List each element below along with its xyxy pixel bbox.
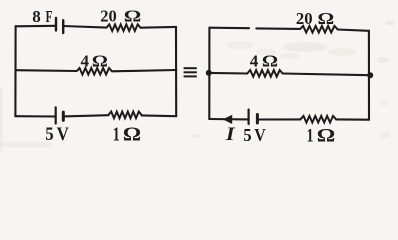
- svg-text:Ω: Ω: [124, 7, 142, 26]
- svg-text:4: 4: [81, 52, 90, 71]
- open gap (capacitor removed), right segment start: [256, 27, 300, 30]
- wire: right circuit top, corner to open gap: [209, 27, 249, 30]
- resistor R5 4ohm (right circuit): [247, 70, 282, 77]
- resistor R1 20ohm (left circuit): [107, 24, 141, 31]
- svg-text:20: 20: [100, 7, 117, 26]
- wire: right circuit middle branch, right segment: [283, 74, 371, 76]
- battery B1 5V long plate (left circuit): [55, 107, 57, 123]
- svg-text:F: F: [46, 7, 53, 26]
- wire: right circuit right side: [368, 31, 370, 120]
- svg-text:V: V: [57, 124, 69, 145]
- svg-text:Ω: Ω: [318, 9, 335, 28]
- paper shading / scan artifacts (decorative): [0, 21, 395, 153]
- svg-text:Ω: Ω: [262, 51, 278, 70]
- svg-text:5: 5: [243, 125, 251, 145]
- equivalence symbol (triple bar): [184, 68, 197, 76]
- svg-text:8: 8: [32, 7, 41, 26]
- current arrow I (pointing left): [223, 115, 232, 124]
- wire: right circuit bottom, battery to 1ohm: [257, 118, 300, 120]
- resistor R2 4ohm (left circuit): [77, 68, 113, 75]
- wire: left circuit top, capacitor to 20ohm resistor: [63, 26, 106, 28]
- wire: right circuit top, 20ohm to right corner: [338, 30, 369, 31]
- wire: left circuit top, corner to capacitor: [16, 25, 56, 28]
- wire: right circuit bottom, 1ohm to right corner: [336, 118, 369, 120]
- svg-text:Ω: Ω: [317, 125, 336, 146]
- battery B2 5V short plate (right circuit): [256, 115, 259, 124]
- svg-text:Ω: Ω: [123, 123, 141, 145]
- wire: left circuit bottom, battery to 1ohm: [63, 115, 108, 116]
- junction dot, right circuit middle-right: [367, 72, 373, 78]
- wire: right circuit bottom, corner to battery: [209, 118, 248, 121]
- svg-text:4: 4: [250, 51, 259, 70]
- capacitor C1 8F right plate: [62, 20, 64, 33]
- svg-text:Ω: Ω: [92, 52, 108, 71]
- battery B2 5V long plate (right circuit): [248, 110, 250, 125]
- resistor R6 1ohm (right circuit): [301, 116, 337, 123]
- svg-text:V: V: [254, 125, 266, 145]
- wire: left circuit left side: [14, 26, 16, 116]
- wire: left circuit middle branch, right segment: [112, 70, 176, 71]
- wire: left circuit right side: [175, 27, 177, 116]
- wire: right circuit middle branch, left segment: [209, 72, 247, 75]
- capacitor C1 8F left plate: [55, 18, 57, 31]
- svg-text:I: I: [225, 125, 236, 145]
- svg-text:5: 5: [45, 124, 53, 145]
- junction dot, right circuit middle-left: [206, 70, 212, 76]
- wire: left circuit middle branch, left segment: [16, 69, 77, 72]
- wire: left circuit bottom, corner to battery: [15, 115, 55, 117]
- svg-text:20: 20: [296, 9, 313, 28]
- wire: left circuit bottom, 1ohm to right corner: [142, 114, 177, 117]
- svg-text:1: 1: [113, 123, 120, 145]
- wire: left circuit top, 20ohm to right corner: [141, 26, 177, 29]
- resistor R3 1ohm (left circuit): [109, 112, 142, 119]
- wire: right circuit left side: [208, 28, 210, 119]
- battery B1 5V short plate (left circuit): [62, 112, 65, 120]
- resistor R4 20ohm (right circuit): [300, 26, 338, 33]
- svg-text:1: 1: [307, 125, 314, 146]
